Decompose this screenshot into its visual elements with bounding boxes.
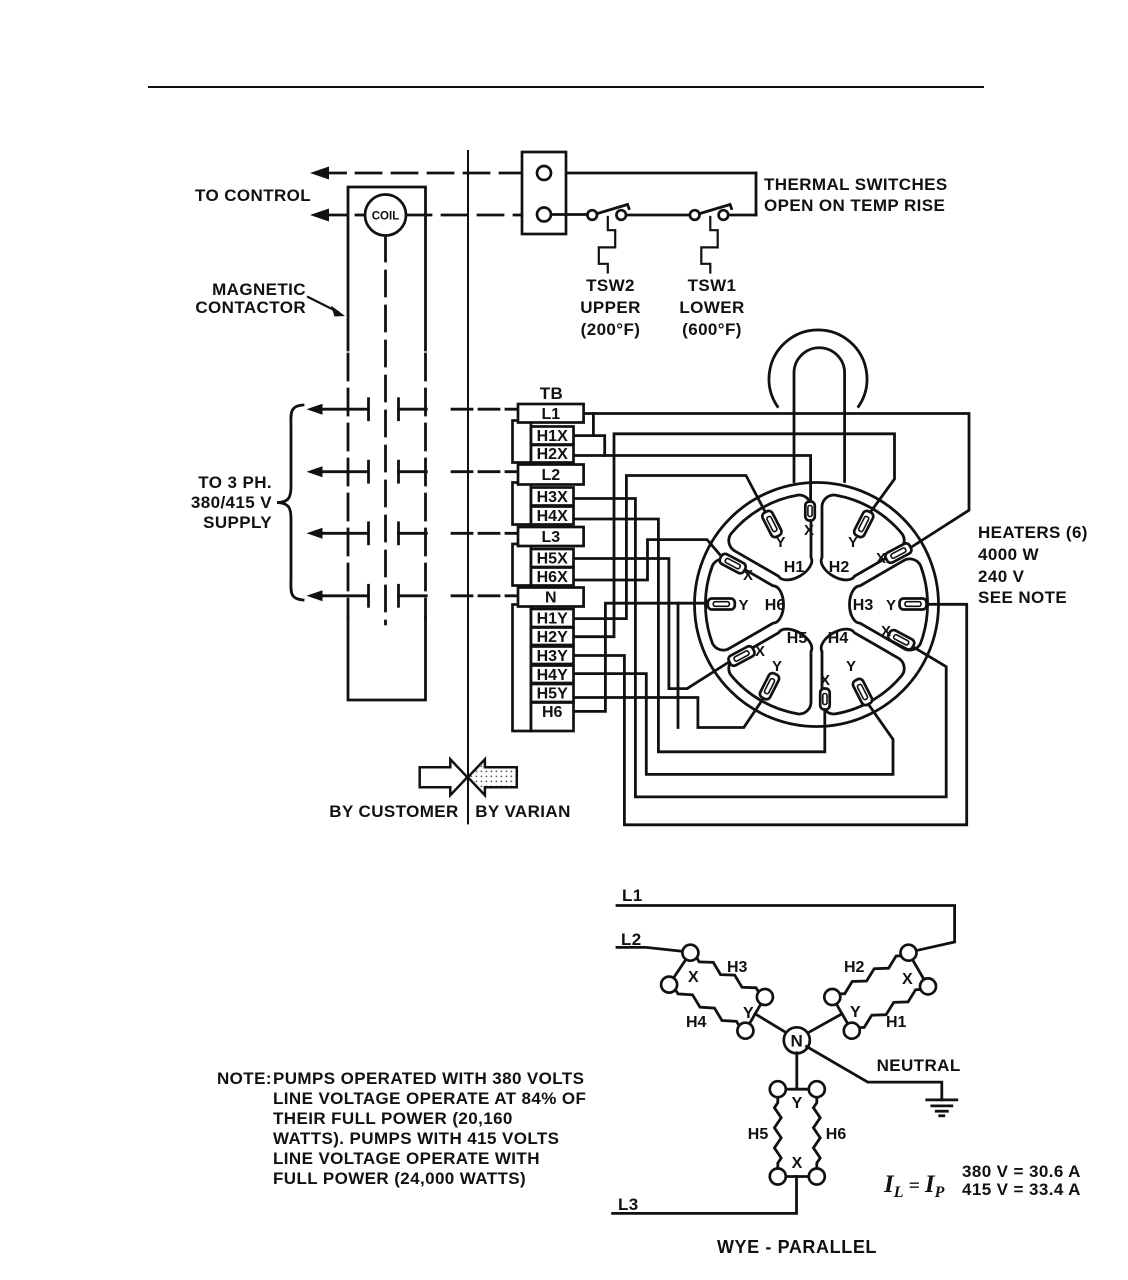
svg-text:TO CONTROL: TO CONTROL [195,186,311,205]
svg-text:BY VARIAN: BY VARIAN [475,802,571,821]
svg-text:X: X [876,550,886,567]
svg-text:L1: L1 [541,406,560,423]
svg-text:L3: L3 [618,1195,639,1214]
svg-text:X: X [804,522,814,539]
svg-text:(600°F): (600°F) [682,320,742,339]
svg-text:380 V = 30.6 A: 380 V = 30.6 A [962,1162,1081,1181]
svg-text:Y: Y [848,534,858,551]
svg-text:LINE VOLTAGE OPERATE WITH: LINE VOLTAGE OPERATE WITH [273,1149,540,1168]
svg-text:415 V = 33.4 A: 415 V = 33.4 A [962,1180,1081,1199]
svg-text:UPPER: UPPER [580,298,641,317]
svg-text:X: X [755,643,765,660]
svg-text:Y: Y [846,658,856,675]
svg-text:H6: H6 [542,704,563,721]
svg-text:X: X [792,1155,803,1172]
svg-text:380/415 V: 380/415 V [191,493,272,512]
svg-text:L2: L2 [541,467,560,484]
svg-text:L3: L3 [541,529,560,546]
svg-text:N: N [545,590,557,607]
svg-text:Y: Y [792,1095,803,1112]
svg-text:H2X: H2X [537,446,568,463]
svg-text:COIL: COIL [372,211,399,223]
svg-text:H3: H3 [727,959,748,976]
svg-text:NEUTRAL: NEUTRAL [877,1056,961,1075]
svg-text:Y: Y [775,534,785,551]
svg-text:THERMAL SWITCHES: THERMAL SWITCHES [764,175,948,194]
svg-text:BY CUSTOMER: BY CUSTOMER [329,802,458,821]
svg-text:HEATERS (6): HEATERS (6) [978,523,1088,542]
svg-text:Y: Y [850,1004,861,1021]
svg-text:Y: Y [743,1005,754,1022]
svg-text:MAGNETIC: MAGNETIC [212,280,306,299]
svg-text:LINE VOLTAGE OPERATE AT 84% OF: LINE VOLTAGE OPERATE AT 84% OF [273,1089,586,1108]
svg-text:SEE NOTE: SEE NOTE [978,588,1067,607]
svg-text:H2: H2 [844,959,865,976]
svg-text:H5Y: H5Y [537,686,568,703]
svg-text:H3: H3 [853,597,874,614]
svg-text:X: X [820,672,830,689]
svg-text:H5X: H5X [537,551,568,568]
svg-text:TSW1: TSW1 [688,276,737,295]
svg-text:NOTE:: NOTE: [217,1069,272,1088]
svg-text:Y: Y [772,658,782,675]
svg-text:H1: H1 [784,559,805,576]
svg-text:THEIR FULL POWER (20,160: THEIR FULL POWER (20,160 [273,1109,513,1128]
svg-text:PUMPS OPERATED WITH 380 VOLTS: PUMPS OPERATED WITH 380 VOLTS [273,1069,584,1088]
svg-text:H6: H6 [765,597,786,614]
svg-text:TO 3 PH.: TO 3 PH. [198,473,272,492]
svg-text:(200°F): (200°F) [581,320,641,339]
svg-text:H1X: H1X [537,428,568,445]
svg-text:OPEN ON TEMP RISE: OPEN ON TEMP RISE [764,196,945,215]
svg-text:X: X [881,623,891,640]
svg-text:Y: Y [738,597,748,614]
svg-text:TB: TB [540,384,563,403]
svg-text:4000 W: 4000 W [978,545,1040,564]
svg-text:H5: H5 [748,1126,769,1143]
svg-text:H4: H4 [686,1014,707,1031]
svg-text:H4Y: H4Y [537,667,568,684]
svg-text:X: X [902,971,913,988]
svg-text:H1: H1 [886,1014,907,1031]
svg-text:SUPPLY: SUPPLY [203,513,272,532]
svg-text:L1: L1 [622,886,643,905]
svg-text:H3X: H3X [537,489,568,506]
svg-text:TSW2: TSW2 [586,276,635,295]
svg-text:H2Y: H2Y [537,629,568,646]
svg-text:FULL POWER (24,000 WATTS): FULL POWER (24,000 WATTS) [273,1169,526,1188]
svg-text:H6: H6 [826,1126,847,1143]
svg-text:H3Y: H3Y [537,648,568,665]
svg-text:X: X [743,567,753,584]
svg-text:N: N [790,1032,803,1051]
svg-text:240 V: 240 V [978,567,1025,586]
svg-text:WATTS). PUMPS WITH 415 VOLTS: WATTS). PUMPS WITH 415 VOLTS [273,1129,559,1148]
svg-text:X: X [688,969,699,986]
svg-text:LOWER: LOWER [679,298,744,317]
svg-text:L2: L2 [621,930,642,949]
svg-text:H1Y: H1Y [537,611,568,628]
svg-text:H2: H2 [829,559,850,576]
svg-text:H4: H4 [828,630,849,647]
svg-text:H4X: H4X [537,508,568,525]
svg-text:Y: Y [886,597,896,614]
svg-text:H5: H5 [787,630,808,647]
svg-text:WYE - PARALLEL: WYE - PARALLEL [717,1237,877,1257]
svg-text:H6X: H6X [537,569,568,586]
svg-text:CONTACTOR: CONTACTOR [195,298,306,317]
